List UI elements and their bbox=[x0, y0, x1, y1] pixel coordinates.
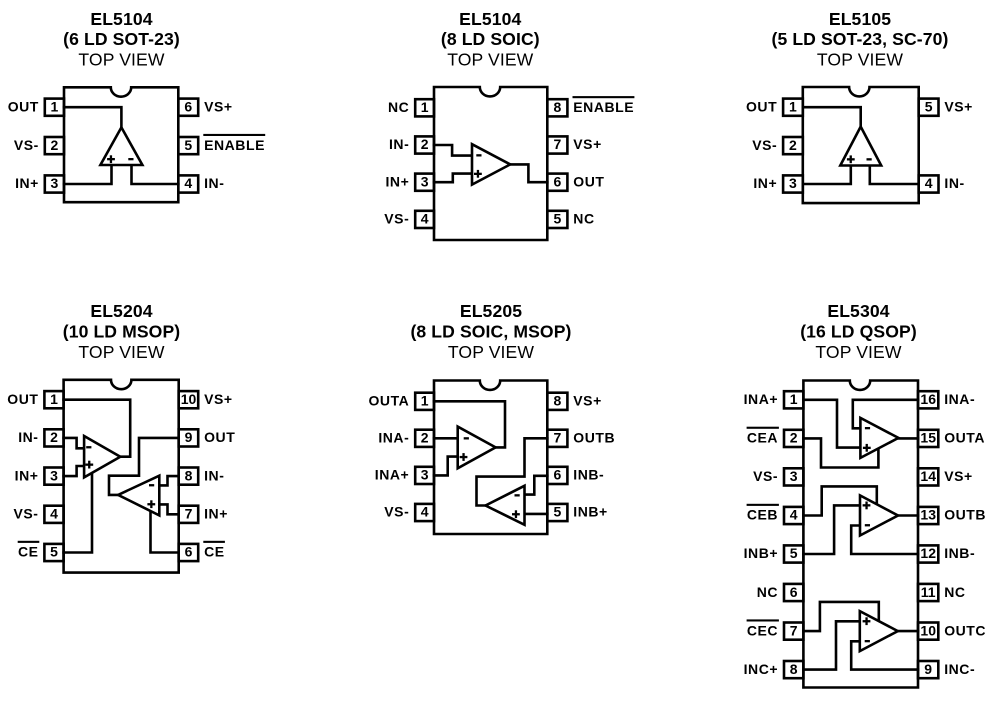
svg-text:1: 1 bbox=[789, 98, 797, 114]
svg-text:10: 10 bbox=[920, 622, 936, 638]
svg-text:5: 5 bbox=[50, 544, 58, 560]
svg-text:6: 6 bbox=[185, 544, 193, 560]
svg-text:CE: CE bbox=[18, 544, 39, 560]
svg-text:3: 3 bbox=[51, 175, 59, 191]
svg-text:7: 7 bbox=[790, 622, 798, 638]
svg-text:VS+: VS+ bbox=[944, 468, 973, 484]
svg-text:IN+: IN+ bbox=[15, 175, 39, 191]
svg-text:6: 6 bbox=[184, 98, 192, 114]
svg-text:IN+: IN+ bbox=[15, 467, 39, 483]
svg-text:6: 6 bbox=[554, 173, 562, 189]
svg-text:TOP VIEW: TOP VIEW bbox=[817, 50, 903, 70]
svg-text:IN-: IN- bbox=[204, 467, 224, 483]
svg-text:5: 5 bbox=[554, 504, 562, 520]
svg-text:8: 8 bbox=[185, 467, 193, 483]
svg-text:VS-: VS- bbox=[384, 211, 409, 227]
svg-text:TOP VIEW: TOP VIEW bbox=[448, 342, 534, 362]
svg-text:(10 LD MSOP): (10 LD MSOP) bbox=[63, 322, 181, 342]
svg-text:1: 1 bbox=[50, 391, 58, 407]
svg-text:3: 3 bbox=[50, 467, 58, 483]
svg-text:OUTB: OUTB bbox=[573, 430, 615, 446]
svg-text:5: 5 bbox=[790, 545, 798, 561]
svg-text:OUT: OUT bbox=[746, 98, 777, 114]
svg-text:2: 2 bbox=[789, 137, 797, 153]
svg-text:14: 14 bbox=[920, 468, 936, 484]
svg-text:7: 7 bbox=[185, 506, 193, 522]
svg-text:IN-: IN- bbox=[389, 136, 409, 152]
svg-text:3: 3 bbox=[421, 467, 429, 483]
svg-text:8: 8 bbox=[554, 393, 562, 409]
svg-text:NC: NC bbox=[573, 211, 594, 227]
svg-text:16: 16 bbox=[920, 391, 936, 407]
svg-text:IN+: IN+ bbox=[204, 506, 228, 522]
svg-text:15: 15 bbox=[920, 430, 936, 446]
svg-text:EL5105: EL5105 bbox=[829, 9, 891, 29]
svg-text:OUTB: OUTB bbox=[944, 507, 986, 523]
svg-text:9: 9 bbox=[924, 661, 932, 677]
svg-text:INB+: INB+ bbox=[744, 545, 779, 561]
svg-text:IN+: IN+ bbox=[753, 175, 777, 191]
svg-text:INC+: INC+ bbox=[744, 661, 779, 677]
svg-text:OUT: OUT bbox=[573, 173, 604, 189]
svg-text:OUT: OUT bbox=[8, 98, 39, 114]
svg-text:INB+: INB+ bbox=[573, 504, 608, 520]
svg-text:IN-: IN- bbox=[944, 175, 964, 191]
svg-text:4: 4 bbox=[184, 175, 192, 191]
svg-text:(8 LD SOIC, MSOP): (8 LD SOIC, MSOP) bbox=[410, 322, 571, 342]
svg-text:VS+: VS+ bbox=[573, 136, 602, 152]
svg-text:VS-: VS- bbox=[384, 504, 409, 520]
svg-text:8: 8 bbox=[554, 99, 562, 115]
svg-text:VS+: VS+ bbox=[573, 393, 602, 409]
svg-text:3: 3 bbox=[790, 468, 798, 484]
svg-text:VS-: VS- bbox=[14, 137, 39, 153]
svg-text:EL5104: EL5104 bbox=[459, 9, 521, 29]
svg-text:INA+: INA+ bbox=[375, 467, 410, 483]
svg-text:INA-: INA- bbox=[944, 391, 975, 407]
svg-text:1: 1 bbox=[51, 98, 59, 114]
svg-text:TOP VIEW: TOP VIEW bbox=[78, 50, 164, 70]
svg-text:1: 1 bbox=[421, 393, 429, 409]
svg-text:INB-: INB- bbox=[573, 467, 604, 483]
svg-text:INC-: INC- bbox=[944, 661, 975, 677]
svg-text:NC: NC bbox=[757, 584, 778, 600]
svg-text:VS+: VS+ bbox=[204, 391, 233, 407]
svg-text:OUTA: OUTA bbox=[368, 393, 409, 409]
svg-text:VS+: VS+ bbox=[944, 98, 973, 114]
svg-text:CEB: CEB bbox=[747, 507, 778, 523]
svg-text:3: 3 bbox=[789, 175, 797, 191]
svg-text:7: 7 bbox=[554, 430, 562, 446]
svg-text:CEC: CEC bbox=[747, 622, 778, 638]
svg-text:4: 4 bbox=[421, 504, 429, 520]
svg-text:11: 11 bbox=[921, 584, 936, 600]
svg-text:TOP VIEW: TOP VIEW bbox=[78, 342, 164, 362]
svg-text:ENABLE: ENABLE bbox=[204, 137, 265, 153]
svg-text:8: 8 bbox=[790, 661, 798, 677]
svg-text:4: 4 bbox=[50, 506, 58, 522]
svg-text:NC: NC bbox=[388, 99, 409, 115]
svg-text:2: 2 bbox=[50, 429, 58, 445]
svg-text:CEA: CEA bbox=[747, 430, 778, 446]
svg-text:2: 2 bbox=[790, 430, 798, 446]
svg-text:4: 4 bbox=[421, 211, 429, 227]
svg-text:1: 1 bbox=[421, 99, 429, 115]
svg-text:OUT: OUT bbox=[204, 429, 235, 445]
svg-text:EL5104: EL5104 bbox=[90, 9, 152, 29]
svg-text:6: 6 bbox=[790, 584, 798, 600]
svg-text:(8 LD SOIC): (8 LD SOIC) bbox=[441, 29, 540, 49]
svg-text:10: 10 bbox=[181, 391, 197, 407]
svg-text:IN+: IN+ bbox=[385, 173, 409, 189]
svg-text:VS+: VS+ bbox=[204, 98, 233, 114]
svg-text:12: 12 bbox=[920, 545, 936, 561]
svg-text:(16 LD QSOP): (16 LD QSOP) bbox=[800, 322, 917, 342]
svg-text:5: 5 bbox=[184, 137, 192, 153]
svg-text:EL5304: EL5304 bbox=[827, 301, 889, 321]
svg-text:VS-: VS- bbox=[14, 506, 39, 522]
svg-text:EL5204: EL5204 bbox=[90, 301, 152, 321]
svg-text:5: 5 bbox=[554, 211, 562, 227]
svg-text:4: 4 bbox=[790, 507, 798, 523]
svg-text:VS-: VS- bbox=[752, 137, 777, 153]
svg-text:2: 2 bbox=[51, 137, 59, 153]
svg-text:7: 7 bbox=[554, 136, 562, 152]
svg-text:2: 2 bbox=[421, 430, 429, 446]
svg-text:VS-: VS- bbox=[753, 468, 778, 484]
svg-text:TOP VIEW: TOP VIEW bbox=[447, 50, 533, 70]
svg-text:1: 1 bbox=[790, 391, 798, 407]
svg-text:INA+: INA+ bbox=[744, 391, 779, 407]
svg-text:INA-: INA- bbox=[378, 430, 409, 446]
svg-text:NC: NC bbox=[944, 584, 965, 600]
svg-text:4: 4 bbox=[925, 175, 933, 191]
svg-text:5: 5 bbox=[925, 98, 933, 114]
svg-text:13: 13 bbox=[920, 507, 936, 523]
svg-text:IN-: IN- bbox=[18, 429, 38, 445]
svg-text:IN-: IN- bbox=[204, 175, 224, 191]
svg-text:3: 3 bbox=[421, 173, 429, 189]
svg-text:OUT: OUT bbox=[7, 391, 38, 407]
svg-text:CE: CE bbox=[204, 544, 225, 560]
svg-text:ENABLE: ENABLE bbox=[573, 99, 634, 115]
svg-text:TOP VIEW: TOP VIEW bbox=[815, 342, 901, 362]
svg-text:OUTA: OUTA bbox=[944, 430, 985, 446]
svg-text:9: 9 bbox=[185, 429, 193, 445]
svg-text:(5 LD SOT-23, SC-70): (5 LD SOT-23, SC-70) bbox=[771, 29, 948, 49]
svg-text:OUTC: OUTC bbox=[944, 622, 986, 638]
svg-text:(6 LD SOT-23): (6 LD SOT-23) bbox=[63, 29, 180, 49]
svg-text:2: 2 bbox=[421, 136, 429, 152]
svg-text:INB-: INB- bbox=[944, 545, 975, 561]
svg-text:EL5205: EL5205 bbox=[460, 301, 522, 321]
svg-text:6: 6 bbox=[554, 467, 562, 483]
